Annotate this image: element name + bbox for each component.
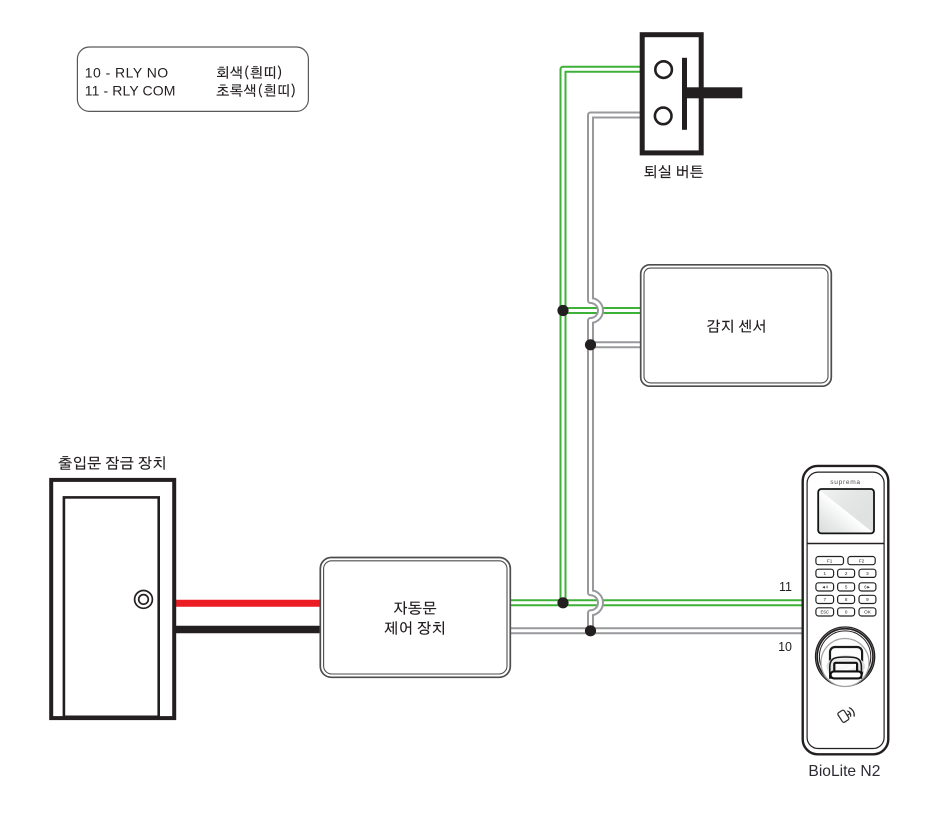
sensor box inner (644, 268, 828, 383)
wire: green horizontal controller to BioLite terminal 11 (510, 599, 802, 606)
BioLite N2 body inner line (807, 472, 884, 748)
fingerprint ring outer (816, 627, 875, 686)
scanner bottom bar (831, 671, 862, 678)
svg-text:BioLite N2: BioLite N2 (808, 763, 880, 780)
fingerprint face circle (821, 639, 869, 687)
wire: gray RLY NO from exit button down with hops (591, 115, 642, 631)
wire: black lock power (176, 626, 321, 633)
separator line (807, 543, 884, 545)
scanner collar (830, 657, 862, 678)
svg-text:ESC: ESC (820, 610, 829, 615)
svg-text:10: 10 (778, 640, 792, 654)
exit button body (642, 35, 701, 153)
wire: green branch to sensor (563, 307, 642, 314)
svg-text:10 - RLY NO: 10 - RLY NO (85, 65, 169, 81)
svg-text:F2: F2 (859, 558, 865, 563)
fingerprint ring second (817, 629, 873, 685)
junction dot gray/sensor branch (585, 339, 596, 350)
junction dot gray vertical / horizontal (585, 625, 596, 636)
key 4 (816, 583, 834, 591)
svg-text:6►: 6► (864, 585, 870, 590)
key 3 (859, 569, 876, 577)
svg-text:5: 5 (845, 585, 848, 590)
sensor window hood (830, 647, 862, 677)
scanner glass (834, 663, 857, 676)
key ESC (816, 608, 834, 616)
svg-text:11 - RLY COM: 11 - RLY COM (85, 83, 176, 99)
key 1 (816, 569, 834, 577)
legend text line 2 color: 초록색(흰띠) (217, 83, 295, 97)
exit button lever vertical bar (682, 58, 687, 130)
door inner panel (64, 497, 159, 716)
white stripe of green wires (510, 69, 802, 603)
label 출입문 잠금 장치 (59, 456, 165, 470)
key 9 (859, 595, 876, 603)
key 0 (838, 608, 855, 616)
label 제어 장치 (385, 621, 445, 635)
LCD screen (818, 489, 874, 533)
junction dot green/sensor branch (557, 305, 568, 316)
svg-text:7: 7 (823, 597, 826, 602)
exit button terminal circle top (655, 61, 672, 78)
svg-text:suprema: suprema (830, 479, 861, 486)
svg-text:8: 8 (845, 597, 848, 602)
svg-text:2: 2 (845, 571, 848, 576)
svg-text:F1: F1 (827, 558, 833, 563)
key F1 (816, 557, 844, 565)
svg-text:11: 11 (779, 580, 792, 594)
RF card icon (837, 706, 856, 724)
svg-text:◄4: ◄4 (822, 585, 829, 590)
legend box (77, 47, 308, 111)
door outer frame (51, 480, 174, 718)
key OK (859, 608, 876, 616)
key 8 (838, 595, 855, 603)
svg-text:1: 1 (823, 571, 826, 576)
junction dot green vertical / horizontal (557, 597, 568, 608)
door knob outer (135, 591, 153, 609)
label 자동문 (394, 601, 436, 615)
wire: gray branch to sensor (591, 341, 643, 348)
key 7 (816, 595, 834, 603)
exit button terminal circle bottom (655, 108, 672, 125)
exit button actuator horizontal bar (683, 87, 742, 98)
svg-text:3: 3 (866, 571, 869, 576)
key 2 (838, 569, 855, 577)
door knob inner (139, 595, 149, 605)
legend text line 1 color: 회색(흰띠) (217, 65, 281, 79)
svg-text:9: 9 (866, 597, 869, 602)
key 6 (859, 583, 876, 591)
white stripe of gray wires (510, 115, 802, 631)
label 감지 센서 (707, 320, 765, 333)
controller box inner (324, 561, 507, 674)
label 퇴실 버튼 (644, 165, 703, 178)
key 5 (838, 583, 855, 591)
svg-text:0: 0 (845, 610, 848, 615)
svg-text:OK: OK (864, 610, 872, 615)
key F2 (848, 557, 875, 565)
BioLite N2 body outer (803, 466, 889, 754)
fingerprint ring thin (819, 631, 870, 682)
scanner side blob (826, 655, 865, 677)
controller box outer (320, 558, 510, 678)
wire: gray horizontal controller to BioLite terminal 10 (510, 627, 802, 634)
wire: green RLY COM from exit button down to controller line (563, 69, 641, 603)
wire: red lock power (176, 600, 321, 607)
sensor box outer (641, 265, 832, 386)
